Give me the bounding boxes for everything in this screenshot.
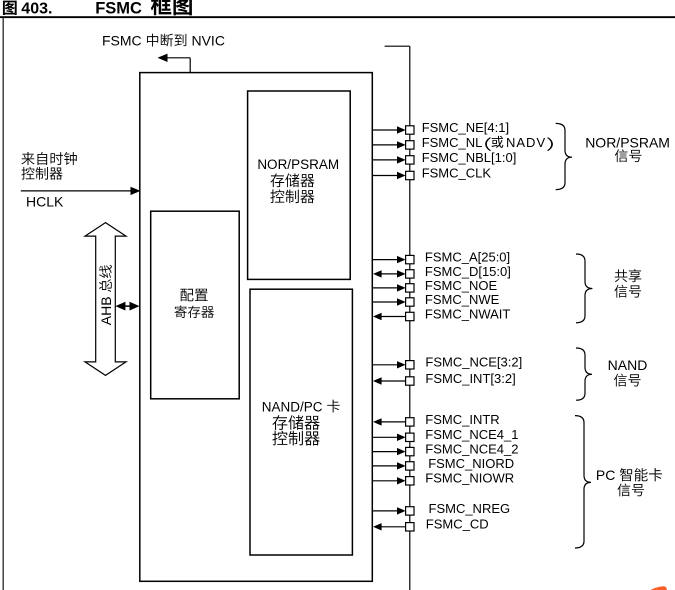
svg-text:PC: PC <box>596 467 619 483</box>
svg-text:NOR/PSRAM: NOR/PSRAM <box>585 134 670 150</box>
label 控制器 (NOR) <box>270 189 314 203</box>
svg-text:FSMC_NE[4:1]: FSMC_NE[4:1] <box>422 120 509 135</box>
wire FSMC_CLK <box>372 175 397 177</box>
svg-text:FSMC: FSMC <box>95 0 142 18</box>
svg-text:FSMC_INT[3:2]: FSMC_INT[3:2] <box>425 371 515 386</box>
pin square FSMC_NWAIT <box>406 312 414 320</box>
ST logo fragment (orange) <box>651 586 668 590</box>
svg-text:FSMC: FSMC <box>102 32 146 48</box>
wire FSMC_INTR <box>381 421 405 423</box>
svg-text:FSMC_NL: FSMC_NL <box>422 135 483 150</box>
pin square FSMC_NIOWR <box>406 477 414 485</box>
svg-text:AHB: AHB <box>98 293 114 326</box>
svg-text:FSMC_NWAIT: FSMC_NWAIT <box>425 306 511 321</box>
brace NAND signals <box>576 348 592 400</box>
pin square FSMC_NCE4_1 <box>406 433 414 441</box>
brace PC card signals <box>575 416 591 548</box>
label AHB 总线 (rotated) <box>98 265 114 325</box>
svg-text:FSMC_D[15:0]: FSMC_D[15:0] <box>425 264 511 279</box>
svg-text:FSMC_NIOWR: FSMC_NIOWR <box>425 471 514 486</box>
svg-text:FSMC_NCE4_2: FSMC_NCE4_2 <box>425 442 518 457</box>
wire FSMC_NL <box>372 144 397 146</box>
svg-text:NVIC: NVIC <box>188 32 225 48</box>
svg-text:FSMC_NREG: FSMC_NREG <box>429 501 511 516</box>
pin square FSMC_NBL[1:0] <box>406 156 414 164</box>
group label 信号 (NOR) <box>615 149 642 162</box>
label 寄存器 <box>175 306 214 318</box>
pin square FSMC_NWE <box>406 298 414 306</box>
wire FSMC_A[25:0] <box>372 259 397 261</box>
wire AHB to FSMC double arrow <box>124 305 131 307</box>
pin square FSMC_NCE[3:2] <box>406 361 414 369</box>
pin square FSMC_CLK <box>406 171 414 179</box>
wire FSMC_NWE <box>372 301 397 303</box>
pin square FSMC_D[15:0] <box>406 270 414 278</box>
NOR/PSRAM controller box <box>248 91 351 279</box>
group label 信号 (NAND) <box>614 374 641 387</box>
wire FSMC interrupt to NVIC <box>167 57 191 59</box>
wire FSMC_NBL[1:0] <box>372 159 397 161</box>
figure frame: left border <box>3 17 4 590</box>
wire FSMC_NWAIT <box>381 316 405 318</box>
wire FSMC_CD <box>381 526 405 528</box>
wire bus vertical <box>409 46 411 590</box>
figure frame: title underline <box>0 16 675 18</box>
pin square FSMC_NREG <box>406 507 414 515</box>
pin square FSMC_CD <box>406 523 414 531</box>
pin square FSMC_A[25:0] <box>406 255 414 263</box>
wire FSMC_D[15:0] <box>381 273 397 275</box>
wire FSMC_NIOWR <box>372 480 397 482</box>
svg-text:FSMC_NBL[1:0]: FSMC_NBL[1:0] <box>422 150 517 165</box>
pin square FSMC_NCE4_2 <box>406 447 414 455</box>
svg-text:FSMC_NOE: FSMC_NOE <box>425 278 498 293</box>
svg-text:403.: 403. <box>21 1 52 18</box>
pin square FSMC_INTR <box>406 418 414 426</box>
label 来自时钟 <box>21 152 76 165</box>
brace NOR/PSRAM signals <box>556 123 572 189</box>
FSMC main block box <box>140 73 372 582</box>
svg-text:NADV: NADV <box>506 135 546 150</box>
pin square FSMC_NOE <box>406 284 414 292</box>
pin square FSMC_NE[4:1] <box>406 126 414 134</box>
wire FSMC_NCE[3:2] <box>372 364 397 366</box>
group label 信号 (shared) <box>614 285 641 298</box>
svg-text:FSMC_NWE: FSMC_NWE <box>425 292 500 307</box>
label 存储器 (NOR) <box>270 173 314 187</box>
pin square FSMC_INT[3:2] <box>406 377 414 385</box>
wire FSMC_INT[3:2] <box>381 380 405 382</box>
brace shared signals <box>576 254 592 323</box>
svg-text:HCLK: HCLK <box>26 193 64 209</box>
svg-text:NAND: NAND <box>608 357 648 373</box>
pin square FSMC_NIORD <box>406 462 414 470</box>
wire FSMC_NE[4:1] <box>372 129 397 131</box>
wire HCLK <box>21 190 131 192</box>
svg-text:NAND/PC: NAND/PC <box>262 399 327 414</box>
label 存储器 (NAND) <box>272 415 319 430</box>
wire bus stub top <box>385 45 410 47</box>
config registers box <box>151 211 240 399</box>
group label 共享 <box>615 269 642 282</box>
svg-text:NOR/PSRAM: NOR/PSRAM <box>257 157 339 172</box>
svg-text:FSMC_INTR: FSMC_INTR <box>425 412 499 427</box>
svg-text:FSMC_NCE[3:2]: FSMC_NCE[3:2] <box>425 355 522 370</box>
wire FSMC_NIORD <box>372 465 397 467</box>
svg-text:FSMC_A[25:0]: FSMC_A[25:0] <box>425 250 510 265</box>
group label 信号 (PC) <box>617 483 644 496</box>
svg-text:FSMC_CLK: FSMC_CLK <box>422 165 492 180</box>
wire FSMC_NCE4_1 <box>372 436 397 438</box>
svg-text:FSMC_NCE4_1: FSMC_NCE4_1 <box>425 427 518 442</box>
svg-text:FSMC_NIORD: FSMC_NIORD <box>428 456 514 471</box>
label 控制器 (NAND) <box>272 431 319 446</box>
wire FSMC_NCE4_2 <box>372 451 397 453</box>
wire FSMC_NREG <box>372 510 397 512</box>
pin square FSMC_NL <box>406 141 414 149</box>
AHB bus double arrow <box>85 223 126 376</box>
label 控制器 (clock) <box>21 167 62 180</box>
title 图 403. <box>3 1 17 15</box>
svg-text:FSMC_CD: FSMC_CD <box>426 517 489 532</box>
NAND/PC card controller box <box>250 289 352 555</box>
wire FSMC_NOE <box>372 287 397 289</box>
label 配置 <box>180 289 207 302</box>
